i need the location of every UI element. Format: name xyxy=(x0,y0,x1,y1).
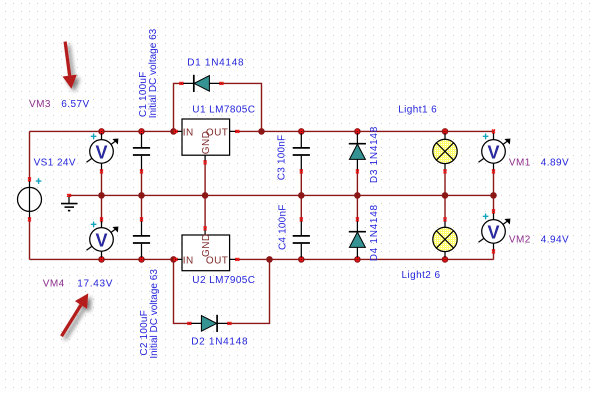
svg-text:GND: GND xyxy=(201,131,212,154)
wire VM2 lower link xyxy=(493,251,495,259)
svg-text:C3 100nF: C3 100nF xyxy=(277,135,288,181)
svg-text:VM1: VM1 xyxy=(509,157,531,168)
svg-text:V: V xyxy=(487,223,499,243)
svg-text:4.89V: 4.89V xyxy=(541,157,569,168)
svg-text:V: V xyxy=(95,143,107,163)
wire VM1 lower link xyxy=(493,171,495,211)
svg-text:IN: IN xyxy=(183,127,194,138)
regulator U1 xyxy=(174,119,240,164)
svg-text:17.43V: 17.43V xyxy=(77,279,113,290)
svg-text:U2 LM7905C: U2 LM7905C xyxy=(192,275,255,286)
svg-text:C4 100nF: C4 100nF xyxy=(277,204,288,250)
diode D4 xyxy=(349,218,366,262)
wire C2 upper link xyxy=(141,195,143,219)
node top rail junctions xyxy=(98,128,448,135)
svg-text:IN: IN xyxy=(183,256,194,267)
capacitor C1 xyxy=(133,130,150,174)
svg-text:VM2: VM2 xyxy=(509,235,531,246)
voltage source VS1 xyxy=(18,178,42,222)
wire D2 bypass right xyxy=(229,259,269,323)
wire C1 lower link xyxy=(141,171,143,195)
lamp Light1 xyxy=(433,130,457,174)
svg-text:GND: GND xyxy=(201,234,212,257)
annotation arrow 2 (points to VM4 value) xyxy=(60,293,88,337)
node bottom rail junctions xyxy=(98,256,448,263)
svg-text:Light1 6: Light1 6 xyxy=(398,105,437,116)
wire VM3 lower link xyxy=(101,171,103,195)
diode D2 xyxy=(188,315,232,332)
svg-text:Initial DC voltage 63: Initial DC voltage 63 xyxy=(149,269,160,359)
lamp Light2 xyxy=(433,218,457,262)
svg-text:V: V xyxy=(487,143,499,163)
svg-text:D1 1N4148: D1 1N4148 xyxy=(187,58,244,69)
capacitor C3 xyxy=(293,130,310,174)
wire bottom rail left segment (VS1 bottom corner to U2 IN) xyxy=(30,219,176,259)
svg-text:4.94V: 4.94V xyxy=(541,235,569,246)
wire top rail right segment (U1 OUT to VM1) xyxy=(236,130,494,132)
regulator U2 xyxy=(174,227,240,271)
voltmeter VM1 xyxy=(479,130,511,174)
voltmeter VM3 xyxy=(87,130,119,174)
wire top rail left segment (VS1 top corner to U1 IN) xyxy=(30,131,176,179)
wire middle rail xyxy=(69,194,494,196)
svg-text:VM3: VM3 xyxy=(29,99,51,110)
capacitor C4 xyxy=(293,218,310,262)
svg-text:VM4: VM4 xyxy=(43,279,65,290)
wire D1 bypass left xyxy=(174,83,182,131)
wire bottom rail right segment (U2 OUT to VM2) xyxy=(236,258,494,260)
annotation arrow 1 (points to VM3 value) xyxy=(63,41,77,88)
svg-text:V: V xyxy=(95,231,107,251)
svg-text:VS1 24V: VS1 24V xyxy=(34,158,76,169)
diode D3 xyxy=(349,130,366,174)
wire D1 bypass right xyxy=(221,83,261,131)
svg-text:D2 1N4148: D2 1N4148 xyxy=(191,337,248,348)
node middle rail junctions xyxy=(98,192,497,199)
capacitor C2 xyxy=(133,218,150,262)
svg-text:6.57V: 6.57V xyxy=(61,99,89,110)
wire C3-C4 link xyxy=(300,171,302,219)
svg-text:D3 1N4148: D3 1N4148 xyxy=(369,126,380,183)
wire D2 bypass left xyxy=(174,259,190,323)
svg-text:Light2 6: Light2 6 xyxy=(402,270,441,281)
diode D1 xyxy=(180,75,224,92)
wire VM4 upper link xyxy=(101,195,103,223)
svg-text:Initial DC voltage 63: Initial DC voltage 63 xyxy=(148,28,159,118)
svg-text:D4 1N4148: D4 1N4148 xyxy=(369,204,380,261)
svg-text:C2 100uF: C2 100uF xyxy=(139,310,150,356)
voltmeter VM4 xyxy=(87,218,119,262)
wire D3-D4 link xyxy=(356,171,358,219)
voltmeter VM2 xyxy=(479,210,511,254)
svg-text:U1 LM7805C: U1 LM7805C xyxy=(192,104,255,115)
wire Light1-Light2 link xyxy=(444,171,446,219)
wire U1 GND to U2 GND through middle rail xyxy=(204,162,206,228)
ground xyxy=(61,194,78,211)
